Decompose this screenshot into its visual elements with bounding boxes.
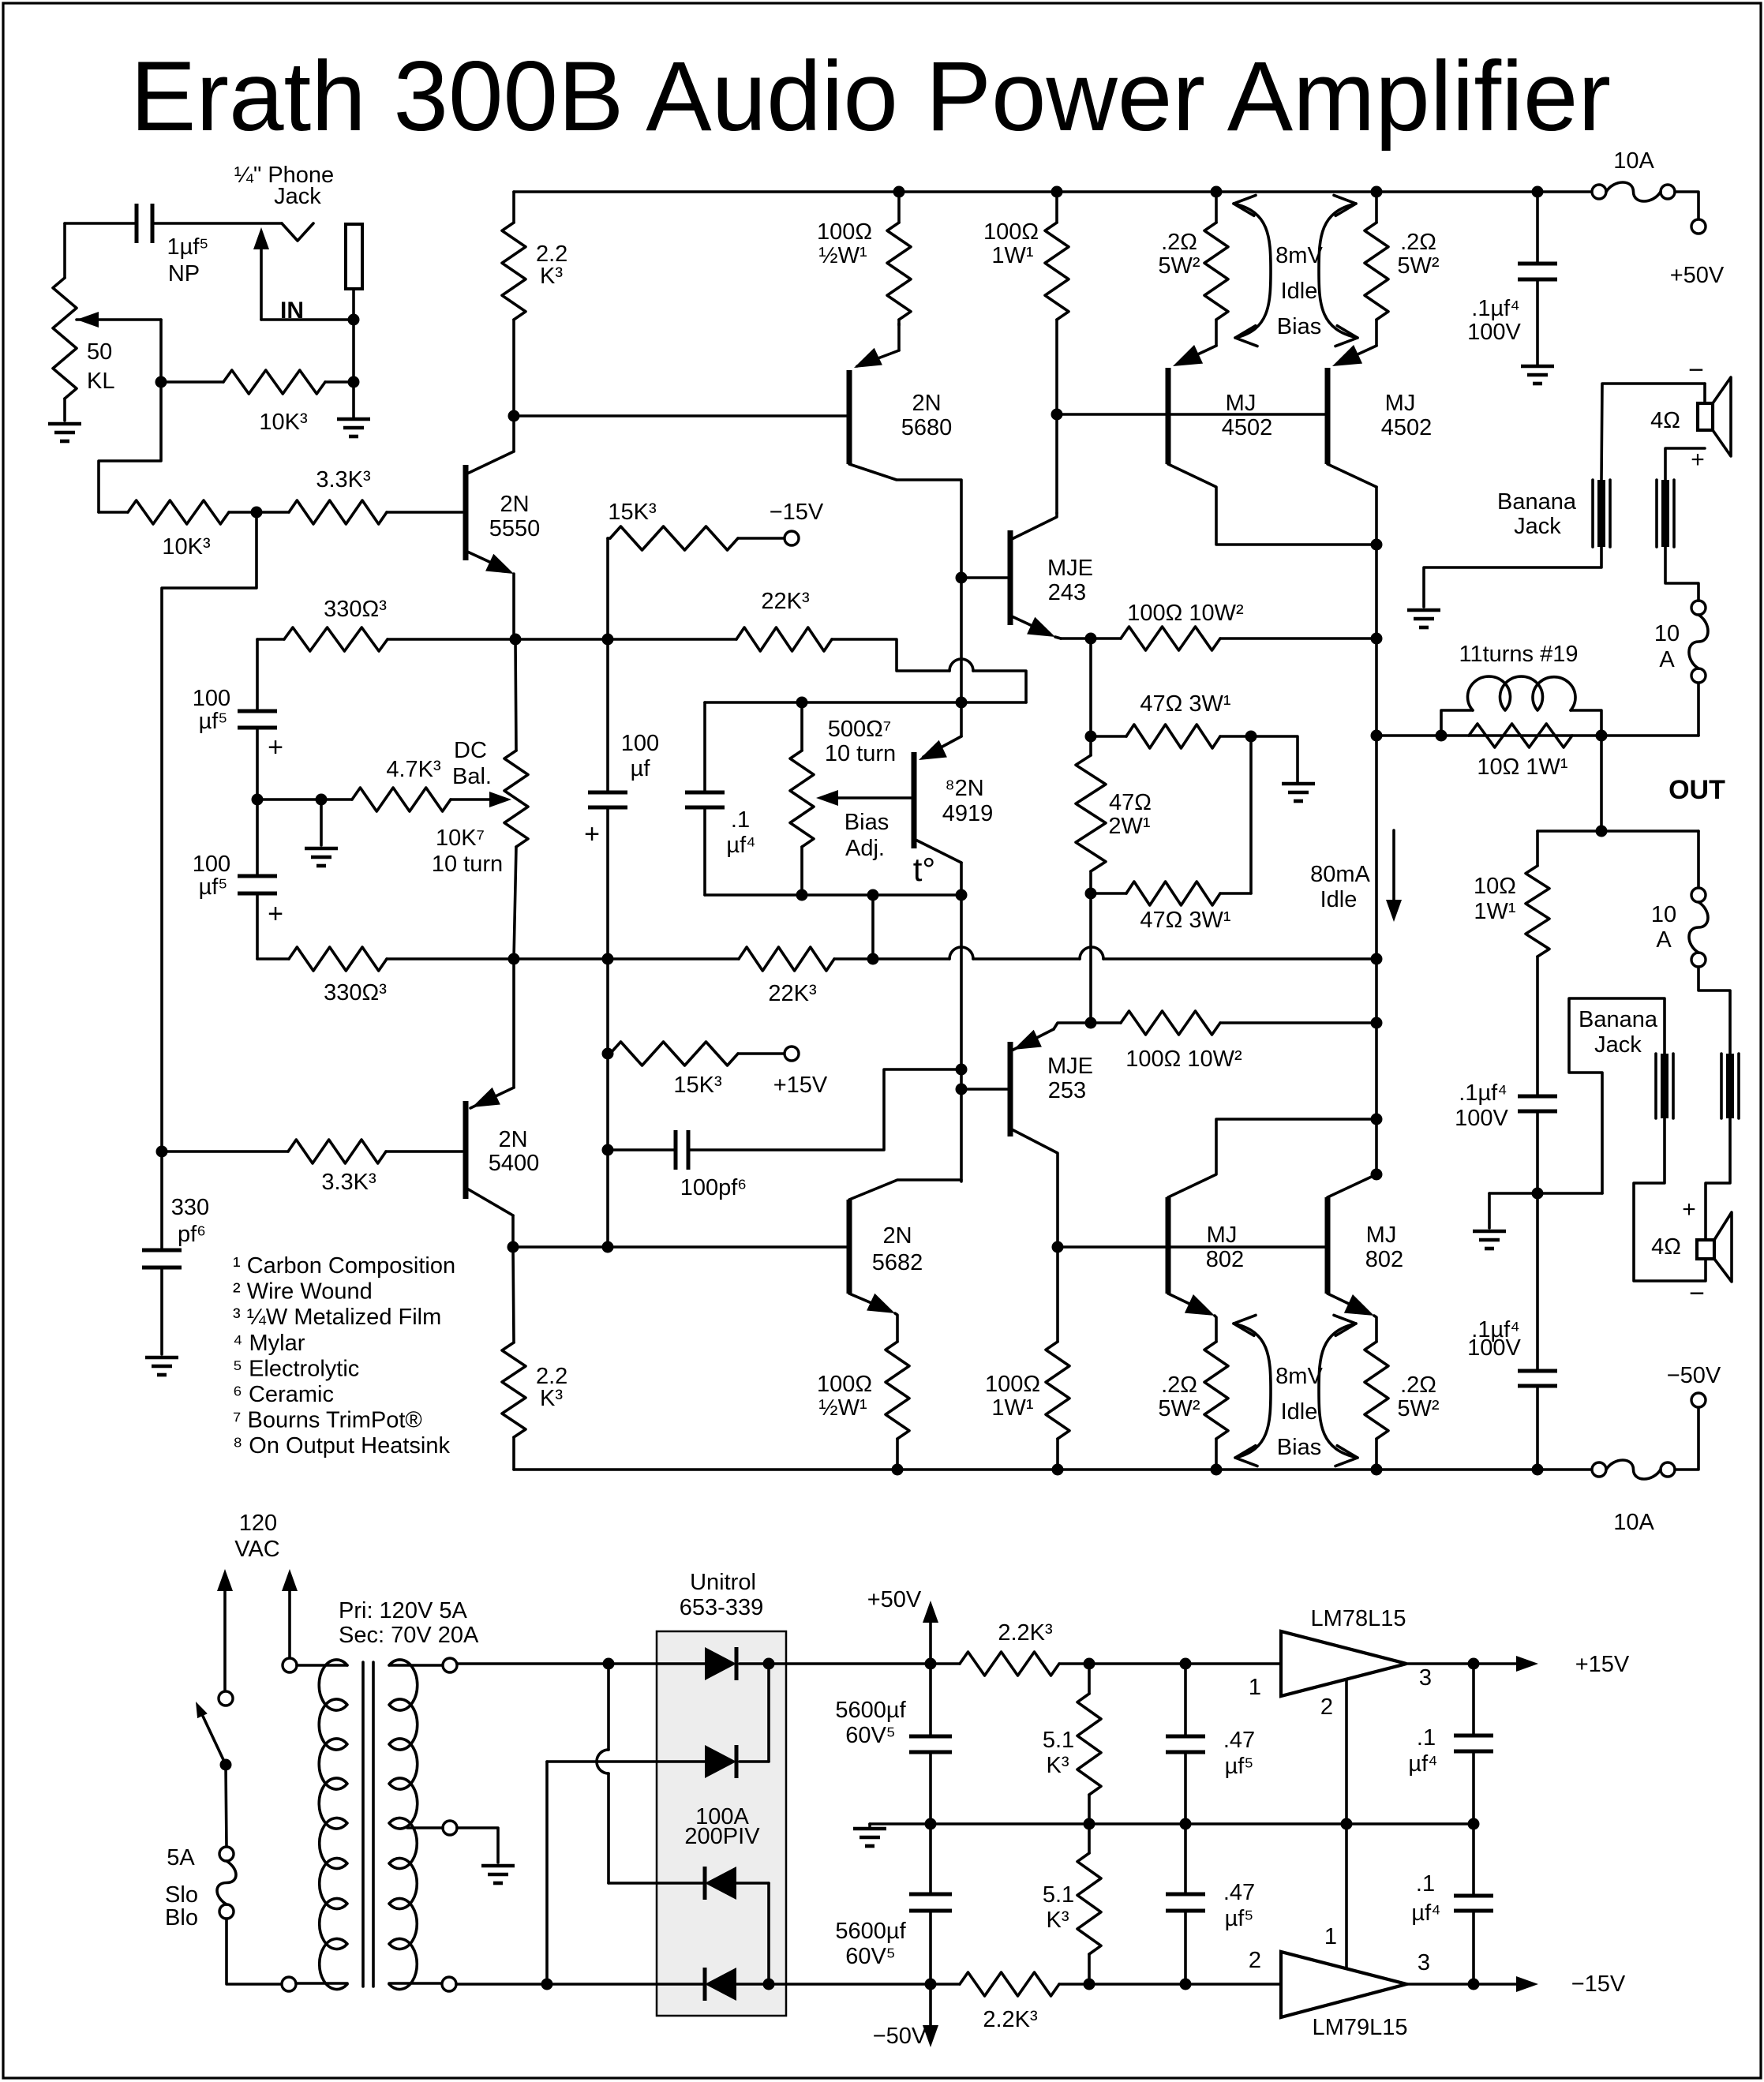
resistor 10K input: [161, 370, 354, 435]
node .47 bottom: [1180, 1979, 1192, 1990]
svg-text:50: 50: [87, 339, 112, 365]
wire MJE243 emitter: [1061, 637, 1091, 640]
wire bias net top row: [705, 701, 1026, 704]
wire D1 out: [740, 1662, 769, 1665]
svg-text:+: +: [268, 899, 283, 929]
resistor 10ohm 1W series: [1474, 831, 1549, 1096]
transistor Q5 2N4919 thermal: [913, 702, 993, 895]
node MJE243 base: [956, 572, 968, 584]
svg-text:.1: .1: [1417, 1725, 1436, 1751]
svg-text:Jack: Jack: [1594, 1032, 1642, 1058]
svg-text:5.1: 5.1: [1043, 1882, 1074, 1908]
wire D3 in: [609, 1882, 705, 1885]
node rail .2ohm-1: [1211, 186, 1223, 198]
svg-text:µf⁵: µf⁵: [199, 874, 228, 900]
svg-text:Bias: Bias: [845, 810, 889, 835]
svg-text:Idle: Idle: [1320, 887, 1358, 912]
ground supply: [853, 1824, 886, 1846]
wire jack2 to speaker: [1665, 448, 1705, 480]
svg-text:⁷ Bourns TrimPot®: ⁷ Bourns TrimPot®: [233, 1408, 422, 1433]
svg-text:5550: 5550: [489, 516, 541, 541]
label Unitrol 653-339: [680, 1570, 763, 1620]
wire D2 link: [767, 1664, 770, 1762]
wire -50 rail out: [769, 1983, 960, 1986]
svg-text:VAC: VAC: [234, 1537, 279, 1562]
svg-text:10K³: 10K³: [162, 534, 211, 560]
svg-text:100: 100: [193, 852, 230, 877]
transistor Q4 MJE243: [961, 513, 1093, 638]
node Lpar right: [1596, 730, 1608, 742]
svg-text:.1: .1: [731, 807, 750, 833]
svg-text:200PIV: 200PIV: [684, 1824, 760, 1849]
wire D4 cathode col: [545, 1762, 549, 1984]
svg-text:1W¹: 1W¹: [1474, 899, 1516, 924]
potentiometer 500ohm 10turn: [790, 702, 896, 895]
wire DC bal row: [257, 798, 352, 801]
capacitor .47uf lower: [1166, 1824, 1255, 1984]
diode D4: [705, 1968, 736, 2001]
svg-text:MJ: MJ: [1207, 1223, 1238, 1248]
wire base row to 2N5680: [514, 414, 849, 418]
terminal secondary top: [443, 1658, 457, 1672]
node bias top pot: [796, 697, 808, 709]
svg-text:15K³: 15K³: [608, 500, 657, 525]
svg-text:802: 802: [1206, 1247, 1244, 1272]
wire jack sleeve row: [261, 318, 354, 321]
node bias bottom 22K: [867, 889, 879, 901]
switch power: [196, 1691, 233, 1771]
node out 22K: [1371, 953, 1383, 965]
svg-text:60V⁵: 60V⁵: [845, 1723, 896, 1748]
resistor 3.3K upper: [257, 467, 463, 524]
speaker 4ohm lower: [1651, 1196, 1732, 1309]
terminal -15V: [785, 531, 799, 545]
node rail b3: [1211, 1464, 1223, 1476]
resistor 100ohm 10W lower: [1091, 1011, 1376, 1072]
wire center tap ground: [457, 1828, 498, 1863]
svg-text:.2Ω: .2Ω: [1400, 1372, 1436, 1398]
node -50 filter: [925, 1979, 937, 1990]
ground output lower: [1473, 1231, 1506, 1249]
svg-text:µf: µf: [631, 756, 651, 781]
banana jack J1: [1593, 480, 1610, 547]
svg-text:Bias: Bias: [1277, 1435, 1321, 1460]
svg-text:100Ω 10W²: 100Ω 10W²: [1125, 1047, 1242, 1072]
node wiper-10K: [155, 376, 167, 388]
wire bias net bottom row: [705, 893, 961, 897]
svg-text:.2Ω: .2Ω: [1400, 230, 1436, 255]
wire branch to D3: [597, 1664, 609, 1883]
svg-text:3: 3: [1419, 1665, 1432, 1691]
transistor Q7 MJE253: [961, 1023, 1093, 1247]
node +50 filter: [925, 1658, 937, 1670]
svg-text:µf⁴: µf⁴: [1411, 1900, 1440, 1926]
wire jack3 to speaker2 minus: [1634, 1118, 1706, 1281]
svg-text:Bias: Bias: [1277, 314, 1321, 339]
node base-bias junction: [251, 507, 263, 519]
node cap ground tie: [1532, 1188, 1544, 1200]
transformer primary winding: [296, 1660, 347, 1989]
inductor 11 turns no19: [1441, 642, 1601, 736]
svg-text:10K⁷: 10K⁷: [436, 826, 485, 851]
capacitor 330pf: [142, 1151, 209, 1354]
svg-text:2W¹: 2W¹: [1108, 814, 1151, 839]
node .47 top: [1180, 1658, 1192, 1670]
transistor Q3 2N5680: [849, 324, 961, 578]
node DC bal left: [252, 794, 264, 806]
node 3.3K-330pf: [156, 1146, 168, 1158]
svg-text:5W²: 5W²: [1158, 253, 1200, 279]
svg-text:½W¹: ½W¹: [818, 1395, 867, 1421]
wire driver column lower: [960, 895, 963, 1181]
resistor 330 upper: [257, 597, 608, 651]
wire lower out row: [1537, 829, 1698, 833]
wire switch to fuse: [226, 1765, 227, 1847]
fuse 10A output lower: [1651, 831, 1708, 967]
phone jack tip contact: [282, 223, 313, 241]
legend footnotes: [233, 1253, 455, 1459]
svg-text:3: 3: [1418, 1950, 1430, 1975]
svg-text:3.3K³: 3.3K³: [316, 467, 371, 492]
label 1/4 Phone Jack: [234, 163, 334, 209]
node sec top branch: [603, 1658, 615, 1670]
svg-text:1µf⁵: 1µf⁵: [167, 234, 209, 260]
node 100pf tie: [956, 1064, 968, 1076]
transformer secondary winding: [389, 1660, 443, 1989]
svg-text:A: A: [1656, 927, 1672, 953]
node col-15K lower: [602, 1048, 614, 1060]
svg-text:8mV: 8mV: [1275, 1364, 1323, 1389]
wire +50 rail out: [769, 1662, 960, 1665]
svg-text:2N: 2N: [882, 1223, 912, 1249]
regulator U1 LM78L15: [1249, 1606, 1432, 1720]
svg-text:3.3K³: 3.3K³: [321, 1170, 376, 1195]
svg-text:+15V: +15V: [1575, 1652, 1630, 1677]
ground output upper: [1407, 610, 1440, 627]
wire jack sleeve down: [352, 289, 355, 418]
wire 47 ground stub: [1251, 736, 1298, 782]
svg-text:⁴ Mylar: ⁴ Mylar: [233, 1331, 305, 1356]
svg-text:2N: 2N: [912, 391, 941, 416]
wire box path to jack3: [1569, 998, 1665, 1193]
svg-text:4919: 4919: [942, 801, 994, 826]
resistor 2.2K lower: [502, 1247, 567, 1470]
svg-text:Banana: Banana: [1579, 1007, 1658, 1032]
fuse 10A bottom: [1592, 1460, 1675, 1535]
svg-text:Erath 300B Audio Power Amplifi: Erath 300B Audio Power Amplifier: [130, 42, 1611, 152]
svg-text:10: 10: [1654, 621, 1680, 646]
svg-text:MJ: MJ: [1385, 391, 1416, 416]
svg-text:10 turn: 10 turn: [432, 852, 503, 877]
svg-text:5600µf: 5600µf: [835, 1919, 906, 1944]
svg-text:³ ¼W Metalized Film: ³ ¼W Metalized Film: [233, 1305, 441, 1330]
svg-text:2.2K³: 2.2K³: [983, 2007, 1038, 2032]
node gnd .47: [1180, 1818, 1192, 1830]
svg-text:Idle: Idle: [1281, 1399, 1318, 1425]
svg-text:5680: 5680: [901, 415, 953, 440]
svg-text:2N: 2N: [500, 492, 529, 517]
svg-text:4.7K³: 4.7K³: [386, 757, 441, 782]
resistor .2ohm 5W no4: [1365, 1342, 1440, 1470]
svg-text:100Ω: 100Ω: [985, 1372, 1040, 1397]
node bias top driver: [956, 697, 968, 709]
node 47 bottom: [1085, 888, 1097, 900]
wire MJ4502 base row: [1057, 413, 1328, 416]
svg-text:10 turn: 10 turn: [825, 741, 896, 766]
svg-text:10: 10: [1651, 902, 1676, 927]
resistor 4.7K: [352, 757, 511, 811]
resistor 100ohm 1W lower: [985, 1247, 1069, 1470]
potentiometer 50KL input level: [53, 223, 161, 421]
resistor 2.2K upper: [502, 192, 567, 416]
svg-text:Sec: 70V 20A: Sec: 70V 20A: [339, 1623, 479, 1648]
svg-text:Pri: 120V 5A: Pri: 120V 5A: [339, 1598, 467, 1623]
svg-text:100Ω: 100Ω: [983, 219, 1039, 245]
svg-text:K³: K³: [540, 1386, 563, 1411]
terminal secondary bottom: [442, 1977, 456, 1991]
wire -15V out: [1406, 1972, 1626, 1997]
terminal center tap: [407, 1821, 457, 1835]
svg-text:802: 802: [1365, 1247, 1403, 1272]
wire MJ802 base row: [1058, 1245, 1328, 1249]
resistor 47ohm 3W lower: [1091, 882, 1251, 933]
wiper bias adj: [816, 790, 914, 861]
node 15K col 330 row: [602, 634, 614, 646]
node collectors lower: [1371, 1114, 1383, 1125]
wire ground row lower: [1489, 1193, 1602, 1228]
node out row: [1371, 730, 1383, 742]
wire D2 out: [740, 1760, 769, 1763]
wire +15 pre row: [1059, 1662, 1281, 1665]
node rail 100ohm-1W: [1051, 186, 1063, 198]
node col-emitter row: [602, 1241, 614, 1253]
svg-text:Bal.: Bal.: [452, 764, 492, 789]
resistor 5.1K upper: [1043, 1664, 1101, 1824]
wire output row: [1376, 734, 1698, 737]
transformer core: [363, 1662, 373, 1987]
svg-text:Banana: Banana: [1497, 489, 1577, 515]
svg-text:.1µf⁴: .1µf⁴: [1471, 296, 1519, 321]
resistor 2.2K supply upper: [960, 1620, 1059, 1676]
wire to -50V terminal: [1675, 1407, 1698, 1470]
svg-text:5W²: 5W²: [1397, 1396, 1440, 1421]
wire ground stub: [320, 799, 323, 845]
fuse 10A top: [1592, 148, 1675, 201]
wire 15K column: [606, 538, 609, 792]
resistor 5.1K lower: [1043, 1824, 1101, 1984]
label 120 VAC: [234, 1511, 279, 1562]
wire D2 in: [547, 1760, 705, 1763]
capacitor .1uf supply lower: [1411, 1824, 1493, 1984]
capacitor .1uf supply upper: [1408, 1664, 1493, 1824]
node 5.1K top: [1084, 1658, 1095, 1670]
node col-330 lower row: [602, 953, 614, 965]
svg-text:4502: 4502: [1381, 415, 1433, 440]
svg-text:µf⁵: µf⁵: [1225, 1754, 1254, 1779]
node gnd 5.1K: [1084, 1818, 1095, 1830]
label banana jack upper: [1497, 489, 1577, 539]
phone jack tip arrow: [253, 227, 269, 320]
svg-text:⁸ On Output Heatsink: ⁸ On Output Heatsink: [233, 1433, 450, 1459]
svg-text:5.1: 5.1: [1043, 1728, 1074, 1753]
svg-text:120: 120: [239, 1511, 277, 1536]
svg-text:100V: 100V: [1467, 320, 1521, 345]
svg-text:+50V: +50V: [1670, 263, 1725, 288]
svg-text:−: −: [1688, 355, 1704, 385]
resistor 10ohm 1W parallel: [1469, 724, 1572, 780]
svg-text:330: 330: [171, 1195, 209, 1220]
terminal +15V amp: [785, 1047, 799, 1061]
svg-text:47Ω 3W¹: 47Ω 3W¹: [1140, 908, 1230, 933]
svg-text:2N: 2N: [498, 1127, 527, 1152]
svg-text:−: −: [1689, 1279, 1705, 1309]
transistor Q10 MJ802: [1168, 1119, 1376, 1342]
capacitor 5600uf lower: [835, 1824, 952, 1984]
phone jack plug body: [346, 224, 362, 289]
svg-text:.2Ω: .2Ω: [1161, 230, 1197, 255]
ground DC bal: [305, 848, 338, 866]
ground 330pf: [145, 1357, 178, 1375]
wire jack1 to ground: [1424, 547, 1601, 607]
svg-text:Blo: Blo: [165, 1905, 198, 1930]
node gnd pin2: [1341, 1818, 1353, 1830]
svg-text:K³: K³: [540, 264, 563, 289]
svg-text:LM78L15: LM78L15: [1311, 1606, 1406, 1631]
resistor 22K upper: [608, 589, 1026, 702]
wire fuse to jack2: [1665, 547, 1698, 601]
svg-text:Idle: Idle: [1281, 279, 1318, 304]
svg-text:+15V: +15V: [773, 1073, 828, 1098]
node rail cap: [1532, 186, 1544, 198]
resistor 330 lower: [257, 947, 514, 1005]
node ground stub: [316, 794, 328, 806]
svg-text:5W²: 5W²: [1397, 253, 1440, 279]
node rail .2ohm-2: [1371, 186, 1383, 198]
svg-text:µf⁵: µf⁵: [199, 709, 228, 734]
node rail b1: [892, 1464, 904, 1476]
node emitter-47 upper: [1085, 633, 1097, 645]
svg-text:100V: 100V: [1455, 1106, 1508, 1131]
wire emitter row: [513, 1245, 849, 1249]
svg-text:5400: 5400: [489, 1151, 540, 1176]
svg-text:−15V: −15V: [1571, 1972, 1626, 1997]
wire out branch down: [1600, 736, 1603, 831]
svg-text:¹ Carbon Composition: ¹ Carbon Composition: [233, 1253, 455, 1279]
banana jack J4: [1721, 1054, 1739, 1118]
svg-text:60V⁵: 60V⁵: [845, 1944, 896, 1969]
svg-text:1W¹: 1W¹: [991, 1395, 1034, 1421]
capacitor 100uf upper: [193, 639, 283, 799]
svg-text:² Wire Wound: ² Wire Wound: [233, 1279, 373, 1305]
wire to +50V terminal: [1675, 192, 1698, 219]
svg-text:Unitrol: Unitrol: [690, 1570, 756, 1595]
regulator U2 LM79L15: [1249, 1924, 1430, 2040]
label 8mV idle bias upper: [1234, 195, 1358, 346]
svg-text:47Ω 3W¹: 47Ω 3W¹: [1140, 691, 1230, 717]
node Lpar left: [1436, 730, 1448, 742]
svg-text:Slo: Slo: [165, 1882, 198, 1908]
label banana jack lower: [1579, 1007, 1658, 1058]
node +15 cap: [1468, 1658, 1480, 1670]
svg-text:MJ: MJ: [1226, 391, 1257, 416]
arrow +50V: [867, 1587, 938, 1664]
svg-text:330Ω³: 330Ω³: [324, 597, 387, 622]
resistor 2.2K supply lower: [960, 1972, 1059, 2032]
wire 47 col upper: [1089, 638, 1092, 736]
svg-text:80mA: 80mA: [1310, 862, 1370, 887]
svg-text:.47: .47: [1223, 1880, 1255, 1905]
title: [130, 42, 1611, 152]
wire +15V out: [1406, 1652, 1630, 1677]
svg-text:.2Ω: .2Ω: [1161, 1372, 1197, 1398]
wire speaker to jack1: [1601, 384, 1705, 480]
svg-text:100pf⁶: 100pf⁶: [680, 1175, 747, 1200]
svg-text:11turns #19: 11turns #19: [1459, 642, 1578, 667]
node lower branch: [1596, 826, 1608, 837]
wire fuse to primary: [227, 1919, 282, 1984]
wire secondary top to D1: [457, 1662, 705, 1665]
transistor Q1 2N5550: [466, 416, 540, 639]
resistor 15K lower: [610, 1042, 828, 1098]
terminal primary top: [283, 1658, 297, 1672]
wire supply ground row: [870, 1822, 1474, 1825]
svg-text:⁵ Electrolytic: ⁵ Electrolytic: [233, 1356, 359, 1381]
svg-text:8mV: 8mV: [1275, 243, 1323, 268]
svg-text:KL: KL: [87, 369, 114, 394]
resistor 22K lower: [514, 947, 873, 1006]
node bias bottom pot: [796, 889, 808, 901]
node D4 join: [763, 1979, 775, 1990]
svg-text:MJE: MJE: [1047, 1054, 1093, 1079]
label 80mA idle: [1310, 830, 1402, 922]
svg-text:2: 2: [1249, 1948, 1261, 1973]
transistor Q8 MJ4502: [1168, 345, 1376, 545]
arrow VAC right: [282, 1569, 298, 1658]
svg-text:2.2K³: 2.2K³: [998, 1620, 1053, 1646]
capacitor 100pf: [608, 1069, 961, 1200]
svg-text:1W¹: 1W¹: [991, 243, 1034, 268]
wire 47 right link: [1249, 736, 1253, 893]
svg-text:+50V: +50V: [867, 1587, 922, 1612]
svg-text:243: 243: [1048, 580, 1086, 605]
transistor Q6 2N5682: [849, 1180, 961, 1342]
ground center tap: [481, 1866, 515, 1883]
svg-text:100: 100: [193, 686, 230, 711]
svg-text:1: 1: [1324, 1924, 1337, 1949]
wire pin2 to ground: [1345, 1679, 1348, 1824]
node -15 cap: [1468, 1979, 1480, 1990]
svg-text:22K³: 22K³: [761, 589, 810, 614]
node output bases upper: [1051, 409, 1063, 421]
speaker 4ohm upper: [1650, 355, 1731, 473]
capacitor 100uf center: [584, 731, 659, 1247]
node D1-D2 join: [763, 1658, 775, 1670]
svg-text:100Ω: 100Ω: [817, 1372, 872, 1397]
fuse 5A slo blo: [165, 1845, 236, 1930]
resistor 100ohm halfW upper: [817, 192, 911, 325]
wire driver column: [960, 578, 963, 702]
wire D4 out: [736, 1983, 769, 1986]
svg-text:µf⁴: µf⁴: [726, 833, 755, 858]
node 47 gnd tie: [1245, 731, 1257, 743]
node out 100ohm lower: [1371, 1017, 1383, 1029]
diode D2: [705, 1745, 736, 1778]
node 47 top: [1085, 731, 1097, 743]
svg-text:A: A: [1659, 647, 1675, 672]
svg-text:5600µf: 5600µf: [835, 1698, 906, 1723]
ground cap upper-right: [1521, 366, 1554, 384]
label DC Bal: [452, 738, 492, 789]
